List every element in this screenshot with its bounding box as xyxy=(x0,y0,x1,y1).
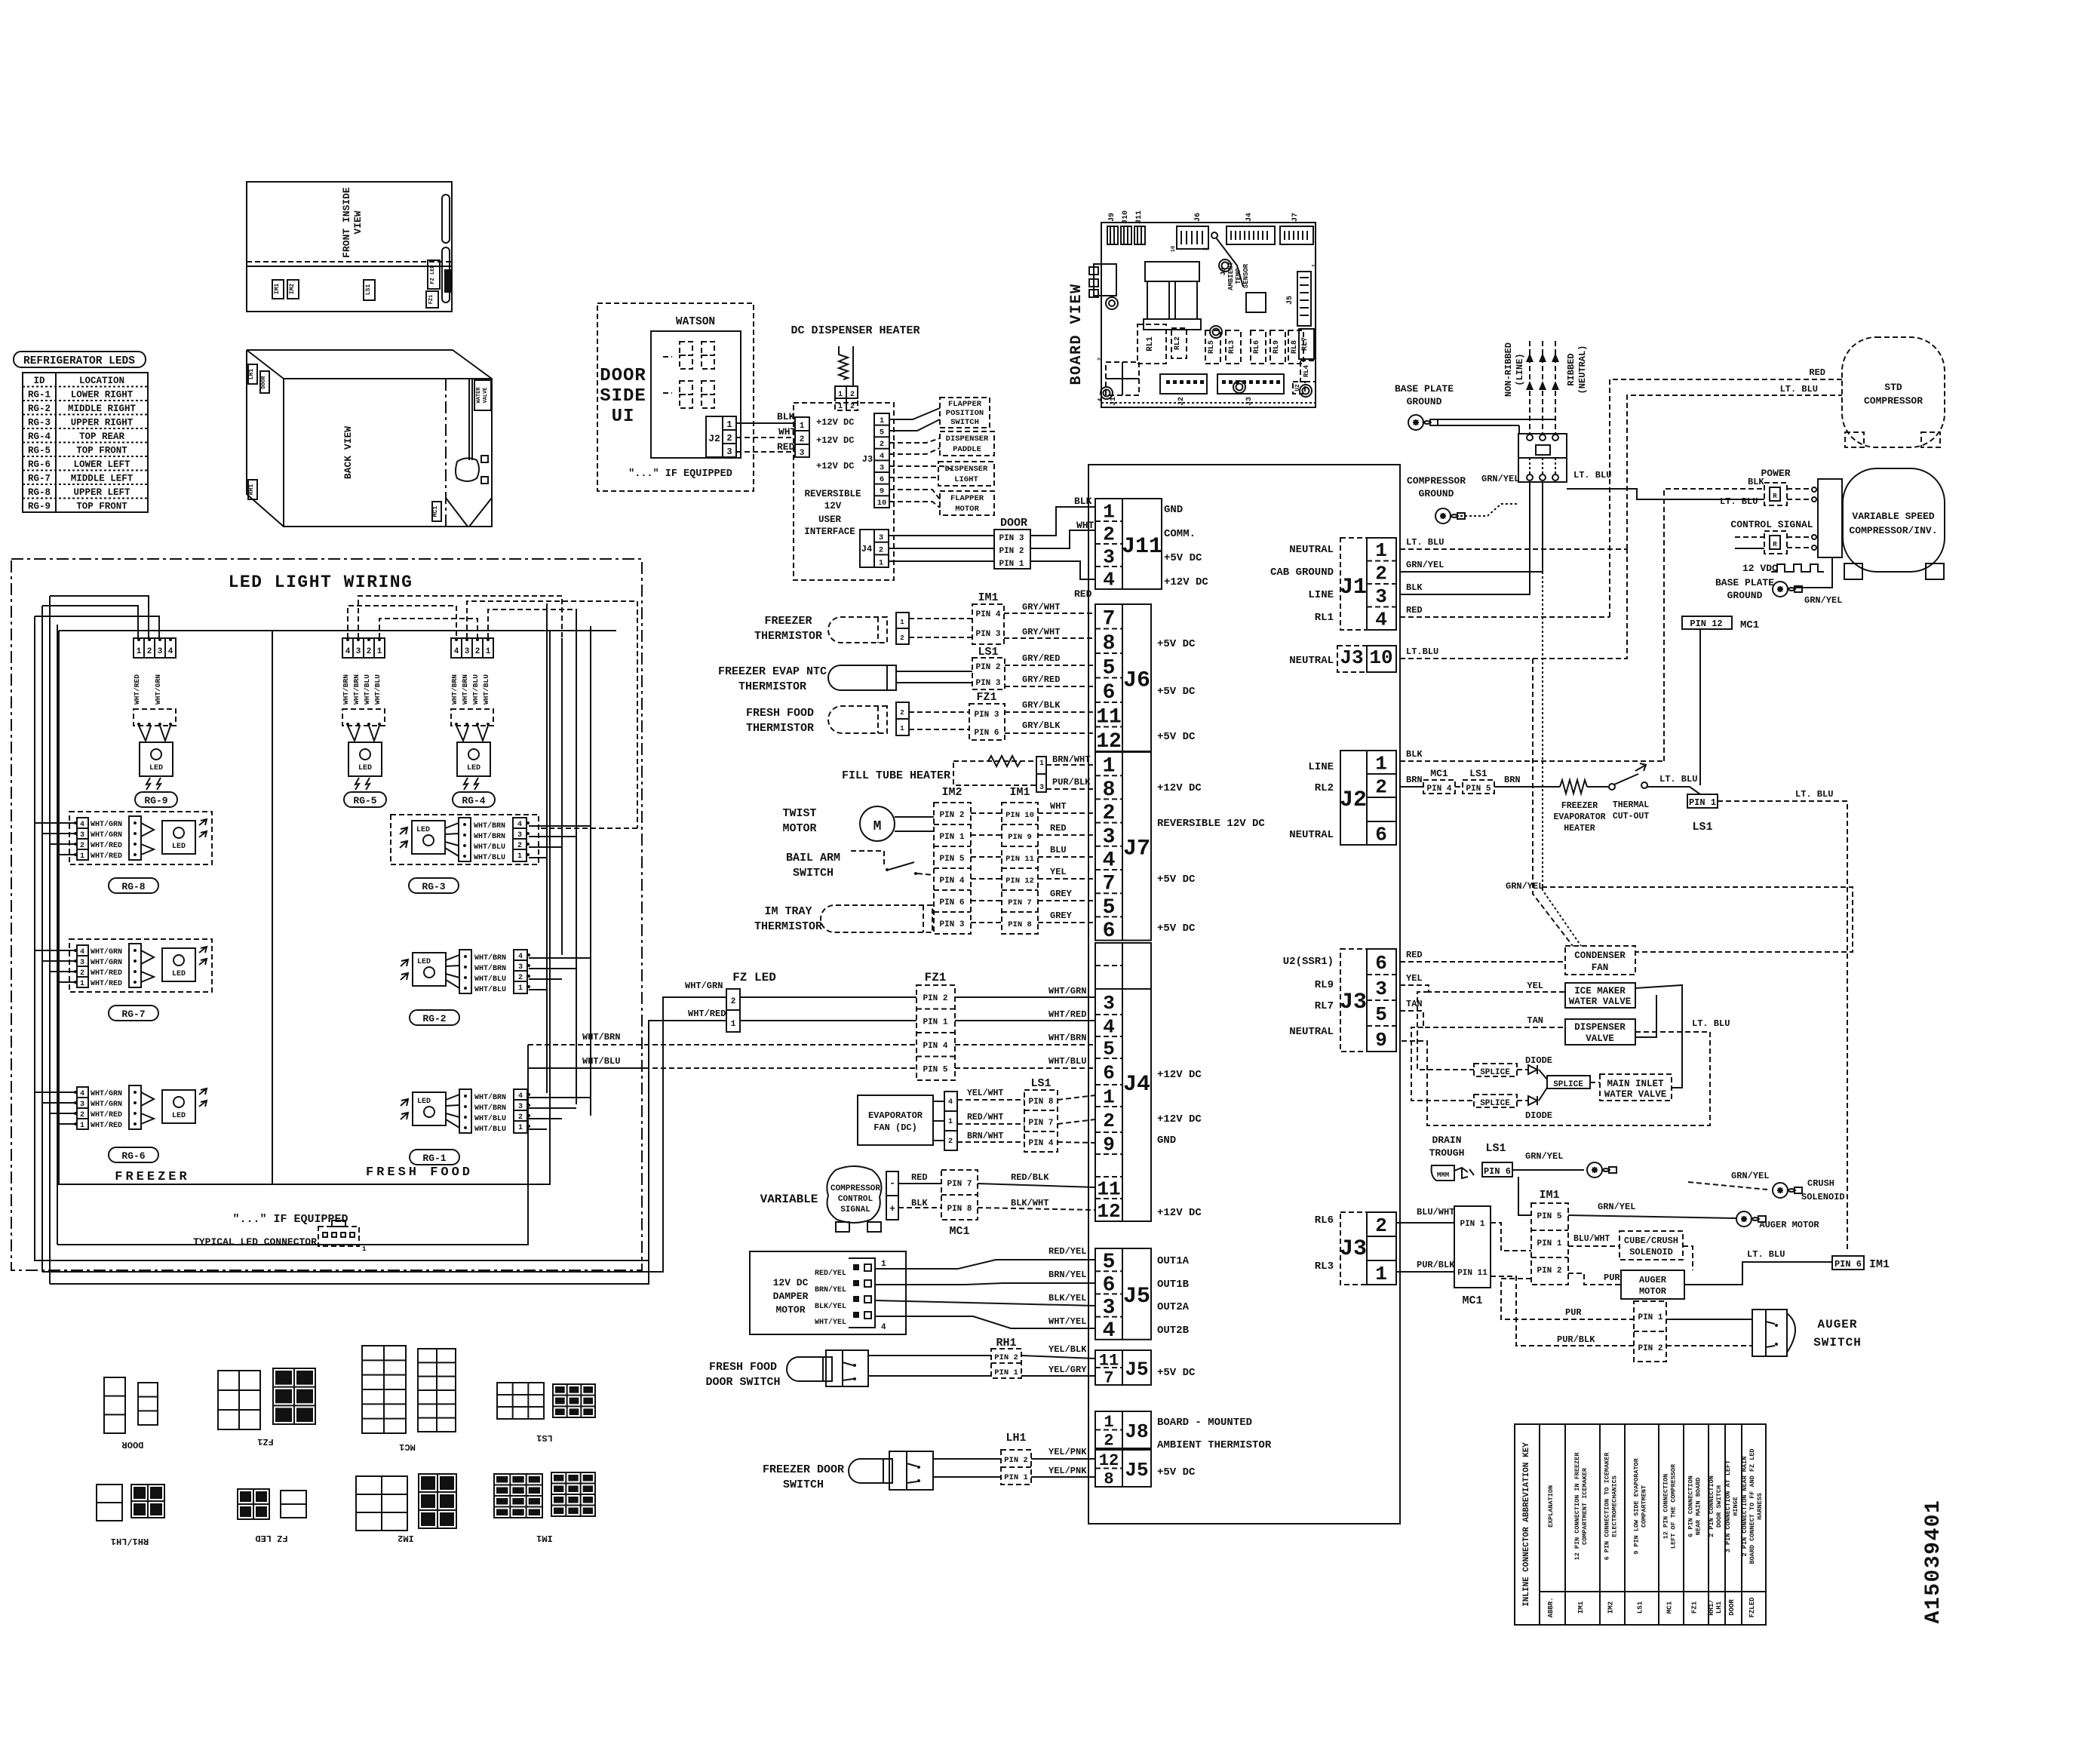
svg-text:EVAPORATOR: EVAPORATOR xyxy=(1553,812,1605,822)
connector J6 xyxy=(1095,604,1122,751)
LED module RG-6 xyxy=(77,1087,88,1129)
svg-text:GND: GND xyxy=(1157,1135,1176,1147)
svg-text:4: 4 xyxy=(1103,1016,1115,1039)
svg-text:PIN 4: PIN 4 xyxy=(923,1042,947,1051)
condenser fan box xyxy=(1565,946,1635,975)
svg-text:WHT/BRN: WHT/BRN xyxy=(582,1032,620,1042)
svg-text:8: 8 xyxy=(1103,632,1116,656)
svg-text:+5V DC: +5V DC xyxy=(1157,923,1196,935)
svg-text:THERMISTOR: THERMISTOR xyxy=(738,680,806,693)
svg-text:PIN 12: PIN 12 xyxy=(1690,619,1722,629)
svg-text:J4: J4 xyxy=(1123,1072,1150,1098)
auger pins PIN1 PIN2 xyxy=(1634,1301,1666,1362)
svg-text:PUR: PUR xyxy=(1565,1307,1582,1318)
svg-text:2 PIN CONNECTION: 2 PIN CONNECTION xyxy=(1708,1475,1715,1537)
svg-text:LINE: LINE xyxy=(1308,589,1334,601)
svg-text:FZ LED: FZ LED xyxy=(255,1533,287,1543)
svg-text:1: 1 xyxy=(726,419,732,430)
svg-text:LS1: LS1 xyxy=(365,284,372,296)
svg-text:SOLENOID: SOLENOID xyxy=(1801,1192,1845,1202)
svg-text:THERMISTOR: THERMISTOR xyxy=(754,630,822,643)
svg-text:LS1: LS1 xyxy=(1469,768,1487,779)
svg-text:EXPLANATION: EXPLANATION xyxy=(1547,1485,1555,1528)
pictogram connector RH1/LH1 xyxy=(97,1485,122,1521)
svg-text:1: 1 xyxy=(1375,1263,1387,1285)
splice boxes and diodes xyxy=(1417,992,1474,1070)
svg-text:+12V DC: +12V DC xyxy=(1157,1113,1202,1125)
wire MC1 pin1 to IM1 pin1 xyxy=(1491,1223,1531,1251)
svg-text:ELECTROMECHANICS: ELECTROMECHANICS xyxy=(1611,1475,1619,1537)
svg-text:PIN 3: PIN 3 xyxy=(999,534,1024,543)
svg-text:MOTOR: MOTOR xyxy=(782,822,816,835)
svg-text:LT. BLU: LT. BLU xyxy=(1659,774,1697,784)
svg-text:OUT1A: OUT1A xyxy=(1157,1255,1190,1267)
svg-text:WHT/BLU: WHT/BLU xyxy=(474,1125,506,1134)
svg-text:DIODE: DIODE xyxy=(1525,1110,1552,1121)
svg-text:4: 4 xyxy=(1103,568,1115,591)
board view connector J4 xyxy=(1227,226,1275,244)
svg-text:TEMP: TEMP xyxy=(1235,268,1242,284)
svg-text:LOCATION: LOCATION xyxy=(79,376,124,386)
svg-text:-: - xyxy=(889,1178,895,1189)
svg-text:LH1: LH1 xyxy=(248,369,255,380)
svg-text:2: 2 xyxy=(879,546,883,555)
svg-text:SWITCH: SWITCH xyxy=(950,418,979,427)
svg-text:LINE: LINE xyxy=(1308,761,1334,773)
svg-text:FILL TUBE HEATER: FILL TUBE HEATER xyxy=(842,769,950,782)
svg-text:PUR/BLK: PUR/BLK xyxy=(1052,777,1091,788)
svg-text:DOOR SWITCH: DOOR SWITCH xyxy=(705,1376,780,1389)
svg-text:J2: J2 xyxy=(708,433,720,444)
svg-text:WHT/YEL: WHT/YEL xyxy=(815,1318,846,1327)
svg-text:12 PIN CONNECTION IN FREEZER: 12 PIN CONNECTION IN FREEZER xyxy=(1573,1452,1581,1561)
svg-text:A15039401: A15039401 xyxy=(1922,1500,1945,1624)
svg-text:M: M xyxy=(873,819,882,834)
svg-text:+12V DC: +12V DC xyxy=(1157,1207,1202,1219)
svg-text:4: 4 xyxy=(168,647,173,656)
svg-text:BRN: BRN xyxy=(1406,775,1423,785)
svg-text:PIN 2: PIN 2 xyxy=(1638,1344,1662,1353)
svg-text:2: 2 xyxy=(367,647,372,656)
svg-text:1: 1 xyxy=(517,852,522,861)
svg-text:LED LIGHT WIRING: LED LIGHT WIRING xyxy=(229,573,413,592)
svg-text:CONTROL SIGNAL: CONTROL SIGNAL xyxy=(1730,519,1813,530)
svg-text:PIN 6: PIN 6 xyxy=(974,729,999,738)
svg-text:OUT2A: OUT2A xyxy=(1157,1301,1190,1313)
svg-text:TAN: TAN xyxy=(1527,1015,1543,1026)
svg-text:+5V DC: +5V DC xyxy=(1157,731,1196,743)
svg-text:YEL/GRY: YEL/GRY xyxy=(1048,1365,1087,1375)
svg-text:R: R xyxy=(1773,493,1777,500)
svg-text:RED/YEL: RED/YEL xyxy=(815,1269,846,1278)
pictogram connector DOOR xyxy=(104,1377,125,1433)
svg-text:OUT1B: OUT1B xyxy=(1157,1279,1190,1291)
svg-text:RG-1: RG-1 xyxy=(422,1153,446,1164)
svg-text:2: 2 xyxy=(1375,563,1387,585)
svg-text:9: 9 xyxy=(1103,1134,1115,1156)
svg-text:WHT/BLU: WHT/BLU xyxy=(474,1114,506,1123)
svg-text:REVERSIBLE 12V DC: REVERSIBLE 12V DC xyxy=(1157,818,1265,830)
svg-text:DOOR: DOOR xyxy=(600,366,646,386)
svg-text:GROUND: GROUND xyxy=(1419,488,1454,499)
back view water valve symbol xyxy=(456,458,479,481)
svg-text:+5V DC: +5V DC xyxy=(1157,874,1196,886)
svg-text:FZ1: FZ1 xyxy=(925,971,947,984)
svg-text:5: 5 xyxy=(1103,656,1116,680)
svg-text:HINGE: HINGE xyxy=(1732,1497,1739,1516)
svg-text:BOARD CONNECT TO FF AND FZ LED: BOARD CONNECT TO FF AND FZ LED xyxy=(1748,1448,1756,1564)
svg-text:IM2: IM2 xyxy=(398,1533,414,1543)
svg-text:J7: J7 xyxy=(1291,213,1300,222)
svg-text:WHT/RED: WHT/RED xyxy=(91,1121,122,1130)
svg-text:SWITCH: SWITCH xyxy=(793,867,834,880)
svg-text:RG-6: RG-6 xyxy=(28,459,51,470)
svg-text:PIN 3: PIN 3 xyxy=(975,679,1000,688)
svg-text:4: 4 xyxy=(881,1323,886,1332)
svg-text:LED: LED xyxy=(416,826,430,834)
svg-text:1: 1 xyxy=(80,980,84,988)
svg-text:3: 3 xyxy=(879,533,883,542)
svg-text:2: 2 xyxy=(1098,358,1104,361)
svg-text:FZLED: FZLED xyxy=(1748,1597,1756,1618)
svg-text:J2: J2 xyxy=(1340,788,1367,813)
svg-text:YEL: YEL xyxy=(1527,981,1543,991)
svg-text:RG-5: RG-5 xyxy=(353,795,376,806)
svg-text:2 PIN CONNECTION NEAR MAIN: 2 PIN CONNECTION NEAR MAIN xyxy=(1741,1457,1748,1557)
LED module RG-4 xyxy=(451,638,493,658)
svg-text:TOP FRONT: TOP FRONT xyxy=(76,502,127,512)
svg-text:RL3: RL3 xyxy=(1228,340,1236,354)
board view relays RL1 RL2 xyxy=(1137,324,1166,364)
UI connector J3 pin column xyxy=(874,413,889,508)
svg-text:WHT/BRN: WHT/BRN xyxy=(474,1093,506,1102)
svg-text:GROUND: GROUND xyxy=(1727,590,1763,601)
svg-text:WHT/BRN: WHT/BRN xyxy=(474,832,505,841)
svg-text:LED: LED xyxy=(172,970,186,978)
svg-text:PIN 12: PIN 12 xyxy=(1005,877,1034,886)
svg-text:J4: J4 xyxy=(1245,213,1254,222)
stub wires RG-3 RG-2 RG-1 to right bundle xyxy=(529,825,591,827)
svg-text:RED: RED xyxy=(777,441,795,453)
svg-text:RH1/: RH1/ xyxy=(1708,1599,1715,1616)
front view connector label IM1 xyxy=(272,280,284,299)
svg-text:PADDLE: PADDLE xyxy=(953,445,981,454)
svg-text:LED: LED xyxy=(149,764,163,772)
svg-text:WHT: WHT xyxy=(1050,801,1067,812)
svg-text:VALVE: VALVE xyxy=(483,387,489,403)
svg-text:FRESH FOOD: FRESH FOOD xyxy=(746,707,814,720)
svg-text:DOOR: DOOR xyxy=(1000,517,1027,530)
svg-text:1: 1 xyxy=(1312,264,1318,267)
svg-text:WHT/GRN: WHT/GRN xyxy=(91,1100,122,1109)
svg-text:PIN 1: PIN 1 xyxy=(1004,1473,1028,1482)
svg-text:LT. BLU: LT. BLU xyxy=(1795,789,1833,800)
svg-text:GRY/WHT: GRY/WHT xyxy=(1022,627,1060,637)
pictogram connector FZ1 xyxy=(218,1371,260,1429)
svg-text:FREEZER: FREEZER xyxy=(1561,801,1598,811)
svg-text:POSITION: POSITION xyxy=(946,409,984,418)
svg-text:RL7: RL7 xyxy=(1315,1000,1334,1012)
svg-text:NEUTRAL: NEUTRAL xyxy=(1289,1026,1334,1038)
front view connector label LS1 xyxy=(364,280,375,300)
svg-text:GRY/BLK: GRY/BLK xyxy=(1022,720,1061,731)
svg-text:WHT/RED: WHT/RED xyxy=(91,979,122,988)
flapper motor box xyxy=(940,491,994,515)
svg-text:PIN 1: PIN 1 xyxy=(923,1018,947,1027)
svg-text:+12V DC: +12V DC xyxy=(816,461,854,471)
svg-text:J8: J8 xyxy=(1125,1420,1148,1443)
svg-text:YEL/WHT: YEL/WHT xyxy=(967,1088,1003,1098)
svg-text:BRN/WHT: BRN/WHT xyxy=(1052,754,1090,765)
svg-text:WHT/BLU: WHT/BLU xyxy=(363,674,371,705)
svg-text:LED: LED xyxy=(172,1112,186,1120)
thermal cut-out xyxy=(1587,786,1608,788)
svg-text:PIN 1: PIN 1 xyxy=(1537,1239,1561,1248)
svg-text:BLK: BLK xyxy=(777,411,795,422)
svg-text:ID: ID xyxy=(33,376,45,386)
svg-text:2: 2 xyxy=(948,1138,953,1146)
svg-text:UPPER RIGHT: UPPER RIGHT xyxy=(71,418,134,428)
svg-text:1: 1 xyxy=(518,1124,523,1132)
svg-text:POWER: POWER xyxy=(1761,468,1790,479)
svg-text:7: 7 xyxy=(1104,1368,1113,1387)
svg-text:COMM.: COMM. xyxy=(1164,528,1196,540)
svg-text:COMPARTMENT ICEMAKER: COMPARTMENT ICEMAKER xyxy=(1581,1467,1589,1545)
svg-text:LOWER LEFT: LOWER LEFT xyxy=(73,459,130,470)
svg-text:MC1: MC1 xyxy=(1462,1294,1482,1307)
svg-text:1: 1 xyxy=(80,1122,84,1130)
svg-text:DAMPER: DAMPER xyxy=(773,1291,809,1302)
svg-text:RG-8: RG-8 xyxy=(28,487,51,498)
svg-text:FZ1: FZ1 xyxy=(976,691,996,704)
svg-text:DOOR: DOOR xyxy=(121,1439,144,1450)
svg-text:+12V DC: +12V DC xyxy=(816,417,854,428)
dispenser light box xyxy=(938,462,994,486)
svg-text:HARNESS: HARNESS xyxy=(1756,1493,1764,1520)
svg-text:4: 4 xyxy=(345,647,351,656)
svg-text:GREY: GREY xyxy=(1050,910,1073,921)
board view relays RL5 RL3 RL6 RL9 RL8 xyxy=(1205,330,1220,364)
svg-text:PIN 5: PIN 5 xyxy=(1466,784,1491,794)
svg-text:1: 1 xyxy=(838,403,843,411)
svg-text:WATSON: WATSON xyxy=(676,316,715,328)
connector J4 xyxy=(1095,989,1122,1221)
svg-text:FRESH FOOD: FRESH FOOD xyxy=(366,1165,473,1180)
evaporator fan box xyxy=(858,1095,933,1145)
svg-text:12: 12 xyxy=(1099,1451,1119,1470)
svg-text:IM1: IM1 xyxy=(536,1533,553,1543)
svg-text:1: 1 xyxy=(137,647,142,656)
svg-text:PIN 1: PIN 1 xyxy=(1460,1220,1484,1229)
svg-text:4: 4 xyxy=(454,647,459,656)
svg-text:WHT/BRN: WHT/BRN xyxy=(461,674,469,705)
svg-text:YEL: YEL xyxy=(1406,973,1423,984)
wires LS1 to J4 xyxy=(1058,1095,1095,1100)
svg-text:BLK/YEL: BLK/YEL xyxy=(815,1302,846,1311)
svg-text:BLU/WHT: BLU/WHT xyxy=(1573,1234,1610,1244)
connector J11 xyxy=(1095,499,1122,589)
svg-text:4: 4 xyxy=(880,452,884,461)
svg-text:TROUGH: TROUGH xyxy=(1429,1147,1465,1159)
svg-text:10: 10 xyxy=(1171,246,1177,252)
svg-text:FRONT INSIDE: FRONT INSIDE xyxy=(341,187,352,258)
svg-text:SOLENOID: SOLENOID xyxy=(1629,1247,1673,1257)
svg-text:2: 2 xyxy=(900,634,904,642)
PIN 12 MC1 box xyxy=(1682,616,1732,629)
svg-text:3: 3 xyxy=(1103,992,1115,1015)
svg-text:FLAPPER: FLAPPER xyxy=(950,494,984,503)
svg-text:9: 9 xyxy=(880,487,884,496)
svg-text:BOARD VIEW: BOARD VIEW xyxy=(1068,283,1085,385)
svg-text:+12V DC: +12V DC xyxy=(816,435,854,446)
svg-text:RG-8: RG-8 xyxy=(121,881,145,892)
svg-text:RG-5: RG-5 xyxy=(28,446,51,456)
svg-text:GRN/YEL: GRN/YEL xyxy=(1804,595,1842,606)
connector J8 xyxy=(1095,1411,1122,1448)
svg-text:1: 1 xyxy=(879,558,883,567)
svg-text:GRY/WHT: GRY/WHT xyxy=(1022,602,1060,613)
svg-text:WHT/GRN: WHT/GRN xyxy=(91,947,122,956)
connector J7 xyxy=(1095,752,1122,941)
svg-text:RL7: RL7 xyxy=(1301,337,1309,351)
svg-text:5: 5 xyxy=(1103,1038,1115,1061)
svg-text:2: 2 xyxy=(1103,523,1115,545)
svg-text:PIN 9: PIN 9 xyxy=(1008,833,1032,842)
svg-text:RED: RED xyxy=(1406,950,1423,960)
svg-text:STD: STD xyxy=(1884,382,1902,393)
svg-text:J5: J5 xyxy=(1125,1358,1148,1380)
svg-text:BLK/YEL: BLK/YEL xyxy=(1048,1293,1086,1303)
svg-text:WATER: WATER xyxy=(476,387,482,404)
svg-text:GRN/YEL: GRN/YEL xyxy=(1598,1202,1635,1212)
connector J5 freezer door xyxy=(1095,1450,1122,1487)
svg-text:WHT/RED: WHT/RED xyxy=(91,1110,122,1119)
svg-text:J6: J6 xyxy=(1194,213,1202,222)
svg-text:+12V DC: +12V DC xyxy=(1164,576,1208,588)
svg-text:BRN/YEL: BRN/YEL xyxy=(815,1285,846,1294)
svg-text:LH1: LH1 xyxy=(1005,1432,1026,1445)
board view connectors J9 J10 J11 xyxy=(1107,226,1118,244)
svg-text:RL5: RL5 xyxy=(1208,340,1216,354)
freezer evaporator heater xyxy=(1560,780,1587,794)
svg-text:1: 1 xyxy=(1103,500,1115,523)
svg-text:TWIST: TWIST xyxy=(782,807,816,820)
svg-text:WHT/RED: WHT/RED xyxy=(91,841,122,850)
svg-text:GRY/BLK: GRY/BLK xyxy=(1022,700,1061,711)
right wire bundle verticals xyxy=(546,603,548,1093)
svg-text:PIN 4: PIN 4 xyxy=(1028,1139,1053,1148)
board view small square component xyxy=(1246,293,1266,312)
board view J8 ambient temp sensor xyxy=(1211,232,1217,238)
svg-text:DOOR: DOOR xyxy=(261,376,267,389)
svg-text:FZ1: FZ1 xyxy=(1691,1601,1699,1614)
svg-text:WHT/RED: WHT/RED xyxy=(688,1009,726,1019)
svg-text:CUT-OUT: CUT-OUT xyxy=(1613,812,1649,821)
svg-text:3: 3 xyxy=(1375,978,1387,1000)
svg-text:PUR: PUR xyxy=(1604,1273,1620,1283)
svg-text:SIGNAL: SIGNAL xyxy=(840,1205,870,1214)
svg-text:+5V DC: +5V DC xyxy=(1157,1466,1196,1478)
svg-text:LT. BLU: LT. BLU xyxy=(1747,1249,1785,1260)
svg-text:LS1: LS1 xyxy=(1485,1142,1506,1155)
wires UI J4 to DOOR pins xyxy=(889,535,994,536)
svg-text:VARIABLE: VARIABLE xyxy=(760,1193,818,1206)
svg-text:2: 2 xyxy=(731,997,736,1006)
svg-text:5: 5 xyxy=(1375,1003,1387,1026)
svg-text:MAIN INLET: MAIN INLET xyxy=(1607,1079,1664,1089)
svg-text:PUR/BLK: PUR/BLK xyxy=(1557,1334,1595,1345)
LED module RG-9 xyxy=(134,638,176,658)
svg-text:IM1: IM1 xyxy=(978,591,998,604)
svg-text:RL1: RL1 xyxy=(1315,612,1334,624)
svg-text:J3: J3 xyxy=(1340,646,1363,669)
board view bottom connector J2 xyxy=(1160,374,1207,394)
wires fresh food GRY/BLK xyxy=(909,711,969,713)
svg-text:1: 1 xyxy=(900,619,904,626)
svg-text:PIN 1: PIN 1 xyxy=(994,1368,1018,1377)
svg-text:REVERSIBLE: REVERSIBLE xyxy=(804,489,861,499)
svg-text:10: 10 xyxy=(877,499,887,508)
svg-text:TYPICAL LED CONNECTOR: TYPICAL LED CONNECTOR xyxy=(193,1236,317,1248)
svg-text:MC1: MC1 xyxy=(1666,1601,1674,1614)
svg-text:FREEZER: FREEZER xyxy=(115,1170,189,1184)
svg-text:PIN 1: PIN 1 xyxy=(939,833,964,842)
svg-text:2: 2 xyxy=(475,647,480,656)
back view label WATER VALVE xyxy=(474,380,491,410)
svg-text:PIN 2: PIN 2 xyxy=(994,1353,1018,1362)
svg-text:J7: J7 xyxy=(1123,837,1150,862)
svg-text:THERMISTOR: THERMISTOR xyxy=(746,722,814,735)
svg-text:2: 2 xyxy=(726,433,732,444)
auger switch xyxy=(1752,1310,1787,1356)
svg-text:BLU: BLU xyxy=(1050,845,1067,855)
svg-text:MC1: MC1 xyxy=(1740,619,1759,631)
LED module RG-5 xyxy=(342,638,385,658)
svg-text:RIBBED: RIBBED xyxy=(1566,353,1577,385)
pictogram connector IM1 xyxy=(494,1474,542,1518)
main control board outline xyxy=(1088,465,1400,1524)
svg-text:WHT/BRN: WHT/BRN xyxy=(474,953,506,963)
solenoid to auger motor link xyxy=(1683,1246,1693,1270)
svg-text:RED: RED xyxy=(1406,605,1423,616)
svg-text:ICE MAKER: ICE MAKER xyxy=(1574,986,1626,996)
svg-text:LIGHT: LIGHT xyxy=(954,475,978,484)
svg-text:WHT/RED: WHT/RED xyxy=(1048,1009,1086,1020)
svg-text:LED: LED xyxy=(417,1098,431,1106)
svg-text:FZ LED: FZ LED xyxy=(732,971,776,984)
svg-text:PIN 5: PIN 5 xyxy=(923,1066,947,1075)
svg-text:RL2: RL2 xyxy=(1174,336,1182,350)
svg-text:5: 5 xyxy=(1103,896,1116,920)
svg-text:RL4: RL4 xyxy=(1303,364,1310,377)
board view screw holes xyxy=(1210,326,1222,338)
wires freezer thermistor GRY/WHT xyxy=(909,618,972,619)
svg-text:11: 11 xyxy=(1096,705,1122,729)
svg-text:4: 4 xyxy=(1375,609,1387,631)
svg-text:RG-4: RG-4 xyxy=(462,795,485,806)
svg-text:CONTROL: CONTROL xyxy=(838,1195,873,1204)
connector J5 door switches xyxy=(1095,1350,1122,1385)
svg-text:J5: J5 xyxy=(1123,1284,1150,1310)
svg-text:3 PIN CONNECTION AT LEFT: 3 PIN CONNECTION AT LEFT xyxy=(1724,1460,1732,1552)
svg-text:COMPARTMENT: COMPARTMENT xyxy=(1641,1485,1648,1528)
svg-text:12 PIN CONNECTION: 12 PIN CONNECTION xyxy=(1662,1474,1670,1540)
std compressor xyxy=(1842,337,1945,447)
pictogram connector FZ LED xyxy=(238,1489,269,1519)
svg-text:BAIL ARM: BAIL ARM xyxy=(786,852,840,864)
svg-text:+5V DC: +5V DC xyxy=(1157,686,1196,698)
svg-text:PIN 8: PIN 8 xyxy=(1008,920,1032,929)
